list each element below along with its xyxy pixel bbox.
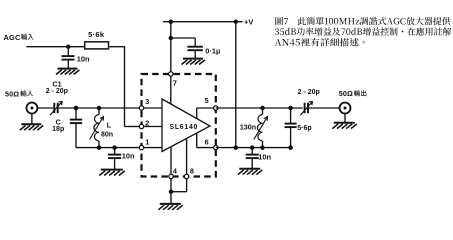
ground AGC decoupling [58, 68, 78, 70]
op-amp U1 amplifier triangle [162, 99, 210, 152]
wire pin 8 from triangle to ground join [186, 138, 188, 174]
pin 3 [139, 106, 143, 110]
caption line 2 [275, 27, 451, 35]
svg-text:80n: 80n [101, 131, 113, 138]
svg-text:L: L [107, 123, 112, 130]
resistor R1 5.6k [85, 42, 109, 49]
wire pin 6 line [216, 147, 291, 149]
svg-text:3: 3 [145, 97, 149, 106]
wire input tank bottom rail to pin 1 [76, 147, 139, 149]
wire pin 5 from triangle [196, 108, 198, 119]
capacitor output 2-20p variable [304, 103, 306, 113]
svg-text:8: 8 [190, 167, 194, 176]
svg-text:10n: 10n [122, 151, 135, 160]
svg-text:10n: 10n [77, 54, 90, 63]
svg-text:10n: 10n [258, 153, 271, 162]
ground input 10n [101, 169, 123, 171]
svg-text:0·1µ: 0·1µ [205, 47, 220, 56]
wire pin 5 line to output [216, 107, 303, 109]
caption line 3 [275, 38, 366, 46]
pin 5 [214, 106, 218, 110]
svg-text:130n: 130n [240, 122, 256, 131]
ground 0.1u [183, 58, 203, 60]
capacitor 10n input side [114, 148, 116, 155]
capacitor 10n AGC decoupling [67, 47, 69, 56]
pin 4 [169, 174, 173, 178]
pin 2 [139, 124, 143, 128]
wire pin 7 into triangle [170, 74, 172, 104]
wire pin 1 to triangle [142, 147, 163, 149]
svg-text:1: 1 [145, 138, 149, 147]
node 0.1u tap [169, 36, 174, 41]
wire AGC vertical drop to pin 2 [124, 46, 126, 126]
svg-text:+V: +V [244, 17, 253, 26]
wire to output connector [308, 107, 340, 109]
node rail to tank feed [234, 19, 239, 24]
svg-text:SL6140: SL6140 [169, 124, 198, 131]
node AGC decoupling junction [66, 44, 71, 49]
op-amp U1 SL6140 dashed package outline [142, 74, 216, 177]
wire resistor to AGC drop [109, 46, 125, 48]
connector input 50 ohm [26, 103, 37, 114]
ground output 10n [239, 168, 260, 170]
node input 10n tap [97, 145, 102, 150]
wire C1 to pin 3 [58, 107, 140, 109]
capacitor 0.1u decoupling [171, 37, 195, 39]
node +V drop joins pin6 line [234, 145, 239, 150]
svg-text:5·6p: 5·6p [297, 125, 311, 132]
svg-text:5·6k: 5·6k [88, 30, 105, 39]
svg-text:18p: 18p [52, 126, 64, 133]
capacitor 5.6p [288, 106, 293, 111]
capacitor C1 2-20p variable [53, 103, 55, 113]
wire pin 2 to triangle [142, 126, 163, 128]
svg-text:5: 5 [205, 96, 209, 105]
wire rail down to pin 7 [170, 22, 172, 72]
capacitor C 18p [75, 108, 77, 120]
inductor 130n variable [260, 106, 265, 111]
svg-text:50Ω: 50Ω [5, 89, 19, 98]
wire AGC input line [26, 46, 84, 48]
wire pin 6 from triangle [196, 133, 198, 148]
pin 8 [184, 174, 188, 178]
svg-text:4: 4 [173, 167, 177, 176]
svg-text:2: 2 [145, 119, 149, 128]
svg-text:7: 7 [173, 79, 177, 88]
wire +V drop to output tank [235, 22, 237, 148]
node C 18p tap [74, 106, 79, 111]
ground IC [160, 203, 181, 205]
svg-text:AGC: AGC [4, 33, 21, 42]
node rail to pin7 [169, 19, 174, 24]
wire +V rail [163, 21, 243, 23]
node output 10n tap [250, 145, 255, 150]
svg-text:2 - 20p: 2 - 20p [298, 89, 320, 96]
capacitor 10n output side [251, 148, 253, 155]
svg-text:6: 6 [205, 137, 209, 146]
ground input connector [31, 113, 33, 124]
wire input to C1 [37, 107, 54, 109]
node pins 4-8 join [169, 189, 174, 194]
wire pin 4 from triangle to ground [170, 147, 172, 174]
ground output connector [344, 113, 346, 122]
wire pin 3 to triangle [142, 107, 163, 109]
inductor L 80n variable [98, 108, 100, 115]
node L tap [97, 106, 102, 111]
svg-text:2 - 20p: 2 - 20p [46, 88, 68, 95]
pin 7 [169, 72, 173, 76]
caption line 1 [275, 17, 450, 25]
pin 1 [139, 145, 143, 149]
connector output 50 ohm [340, 103, 351, 114]
pin 6 [214, 145, 218, 149]
svg-text:50Ω: 50Ω [339, 89, 353, 98]
